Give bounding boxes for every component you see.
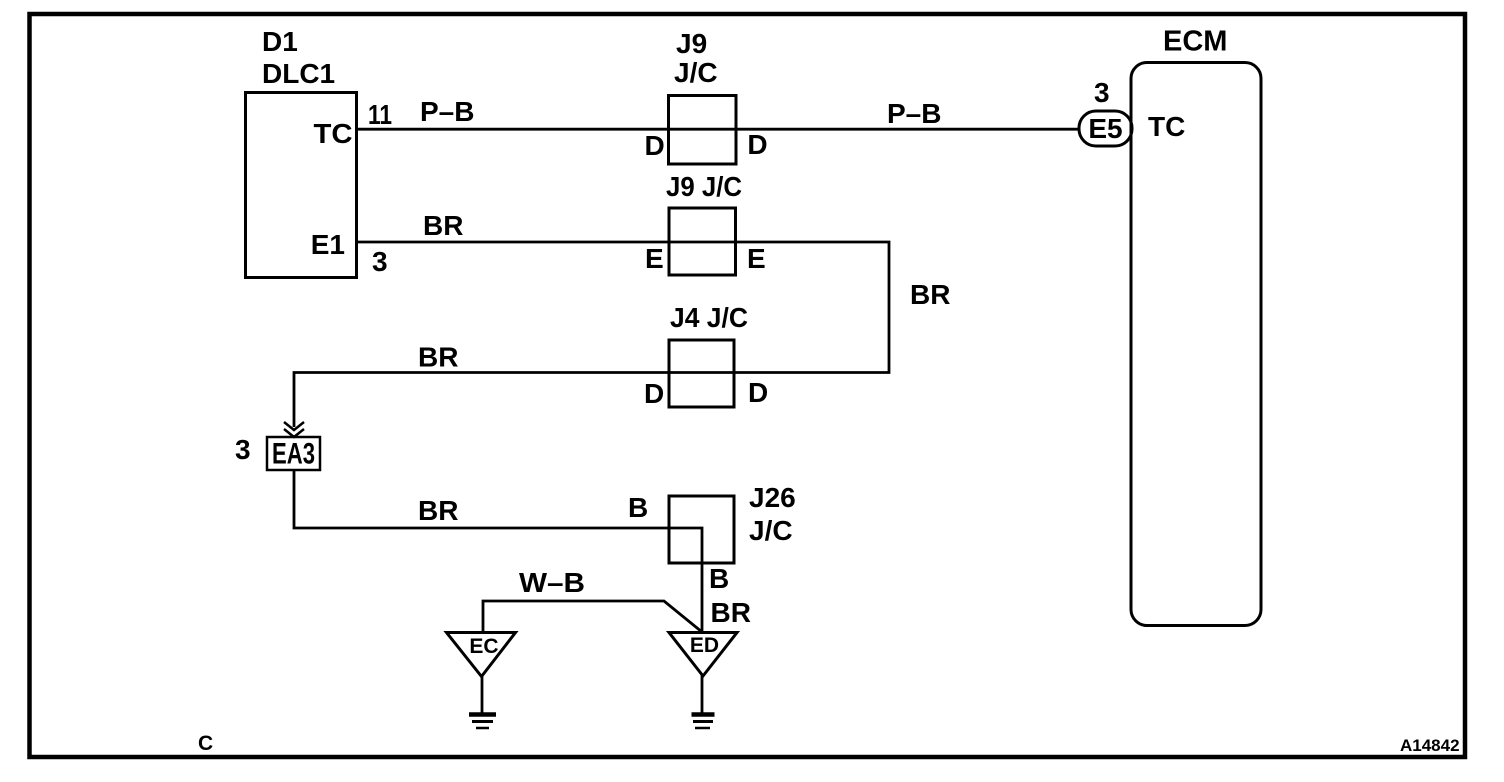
svg-text:E1: E1 bbox=[311, 229, 345, 260]
svg-text:EA3: EA3 bbox=[272, 438, 315, 471]
svg-text:J/C: J/C bbox=[674, 57, 718, 88]
svg-text:E5: E5 bbox=[1088, 113, 1122, 144]
svg-text:3: 3 bbox=[1094, 77, 1110, 108]
svg-text:3: 3 bbox=[235, 434, 251, 465]
svg-text:B: B bbox=[628, 492, 648, 523]
svg-text:J/C: J/C bbox=[749, 515, 793, 546]
svg-text:BR: BR bbox=[423, 210, 463, 241]
svg-text:D: D bbox=[645, 130, 665, 161]
svg-text:C: C bbox=[198, 732, 213, 755]
svg-text:BR: BR bbox=[910, 279, 950, 310]
svg-text:D: D bbox=[644, 378, 664, 409]
svg-text:ECM: ECM bbox=[1163, 26, 1227, 58]
svg-text:B: B bbox=[709, 563, 729, 594]
svg-text:P–B: P–B bbox=[420, 96, 474, 127]
svg-text:DLC1: DLC1 bbox=[262, 58, 335, 89]
svg-text:3: 3 bbox=[372, 246, 388, 277]
svg-text:BR: BR bbox=[418, 495, 458, 526]
svg-text:D: D bbox=[747, 129, 767, 160]
svg-text:J9 J/C: J9 J/C bbox=[666, 171, 742, 202]
svg-text:E: E bbox=[645, 243, 664, 274]
svg-text:TC: TC bbox=[1148, 111, 1185, 142]
svg-text:ED: ED bbox=[690, 634, 719, 657]
svg-text:11: 11 bbox=[368, 99, 392, 130]
svg-text:TC: TC bbox=[314, 118, 353, 149]
svg-text:EC: EC bbox=[469, 635, 498, 658]
svg-text:P–B: P–B bbox=[887, 98, 941, 129]
svg-text:J4 J/C: J4 J/C bbox=[670, 302, 748, 333]
svg-text:BR: BR bbox=[418, 342, 458, 373]
svg-text:D: D bbox=[748, 377, 768, 408]
svg-text:D1: D1 bbox=[262, 26, 298, 57]
svg-text:J9: J9 bbox=[676, 28, 707, 59]
svg-text:A14842: A14842 bbox=[1400, 736, 1460, 755]
svg-text:BR: BR bbox=[711, 597, 751, 628]
svg-text:W–B: W–B bbox=[519, 567, 585, 598]
svg-text:E: E bbox=[747, 243, 766, 274]
svg-text:J26: J26 bbox=[749, 482, 796, 513]
